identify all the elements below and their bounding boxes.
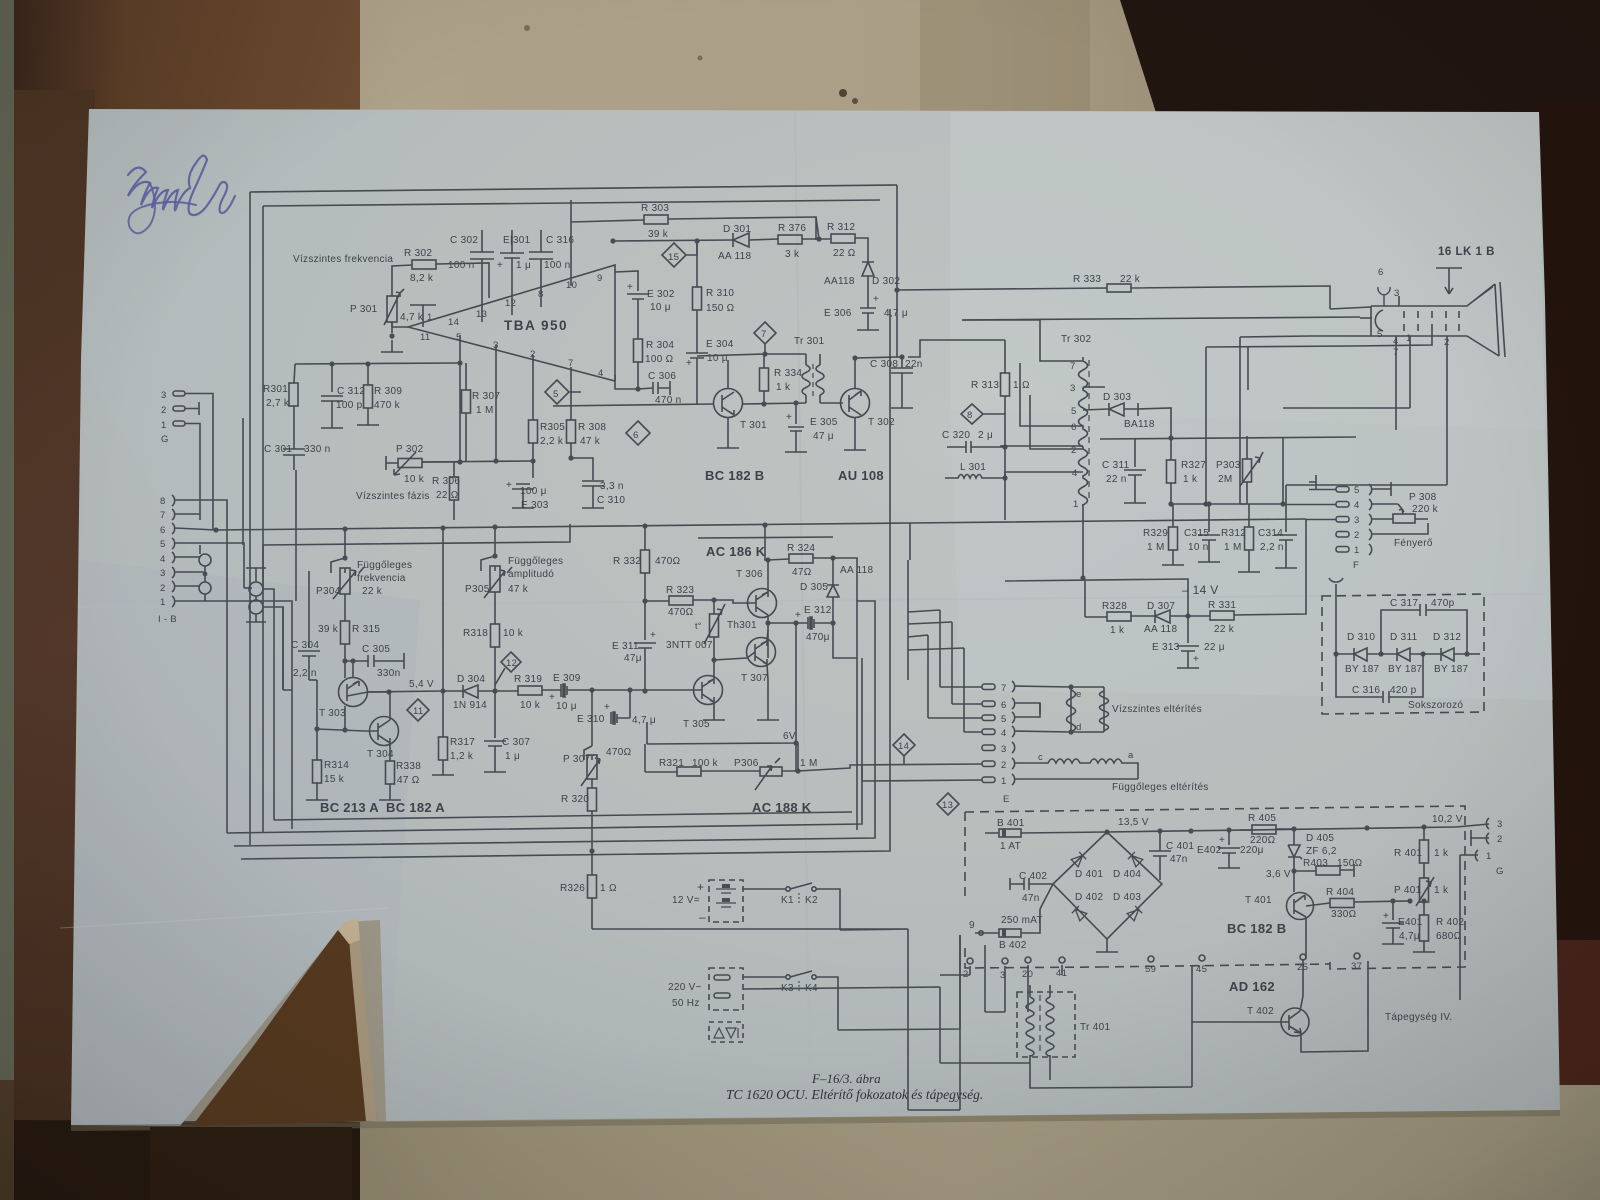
wire inner frame left <box>262 206 264 832</box>
capacitor E303 electrolytic 100u <box>512 461 534 508</box>
resistor R306 <box>450 462 459 520</box>
cathode arc <box>1375 310 1383 331</box>
resistor R328 <box>1085 612 1155 621</box>
wire vertical x897 down from 290 <box>897 290 902 357</box>
wire L301 node down <box>1004 447 1006 520</box>
label AC188K <box>752 800 812 815</box>
resistor R321 <box>645 767 760 776</box>
wire collector T303 to 5,4V row <box>352 661 354 678</box>
diamond node 6 <box>626 421 650 445</box>
capacitor E306 electrolytic <box>857 290 879 330</box>
transformer Tr301 <box>802 354 824 403</box>
node row y438 <box>1100 437 1356 439</box>
capacitor C304 <box>298 571 320 680</box>
potentiometer P401 <box>1416 877 1434 915</box>
resistor R307 <box>462 363 471 462</box>
carpet left green-gray stripe <box>0 0 14 1100</box>
resistor R401 <box>1420 827 1429 878</box>
pin 1 stub with T-top <box>410 305 436 327</box>
carpet left brown column <box>0 90 95 1200</box>
wire 13,5V rail <box>1107 827 1456 832</box>
label Függőleges eltérítés <box>1112 782 1209 793</box>
capacitor E309 electrolytic <box>558 684 592 697</box>
resistor R315 <box>341 618 350 661</box>
wire R323/T306 base link <box>714 600 747 603</box>
wire pin12 to E301 <box>511 302 513 315</box>
jack circles mid <box>246 568 266 622</box>
fuse B401 <box>985 829 1107 837</box>
wire R334 bottom to T301 row <box>742 403 806 404</box>
inductor vertical deflection coils <box>1043 759 1138 779</box>
rectifier bridge D401-D404 <box>1053 832 1162 939</box>
resistor R312b <box>1238 504 1260 572</box>
wire R333 line <box>897 288 1107 290</box>
capacitor E311 electrolytic <box>634 601 656 691</box>
wire 12V loop down <box>592 920 908 1110</box>
transistor T306 <box>747 577 777 658</box>
diamond node 11 <box>407 699 429 721</box>
transistor T301 <box>714 360 743 448</box>
capacitor C310 3,3n <box>571 458 604 508</box>
wire y692 row <box>368 691 463 692</box>
wire x833 d305 column down <box>833 585 857 830</box>
wire pin11 apex left <box>392 322 408 327</box>
transistor T305 <box>694 664 726 720</box>
transistor T402 <box>1270 959 1309 1036</box>
wire C306 to T301 base <box>553 404 714 406</box>
capacitor C301 <box>283 445 305 470</box>
resistor R338 <box>379 761 401 800</box>
wire inner frame top <box>263 200 880 206</box>
resistor R327 <box>1167 438 1176 504</box>
capacitor C311 <box>1124 438 1146 503</box>
capacitor E301 electrolytic <box>500 230 524 302</box>
label AC186K <box>706 544 766 559</box>
diode D312 <box>1423 648 1467 661</box>
capacitor E312 electrolytic 470u <box>796 617 833 629</box>
resistor R314 <box>306 760 328 800</box>
transformer Tr302 winding <box>1079 357 1090 505</box>
capacitor C305 <box>343 653 404 669</box>
resistor R404 <box>1330 899 1410 908</box>
capacitor C302 <box>470 230 494 310</box>
wire Tr302 pin7 left <box>962 320 1083 361</box>
wire bottom loops <box>592 929 1030 1063</box>
wire T306-T307 junction <box>765 620 770 625</box>
inductor L301 <box>945 475 1005 479</box>
node row y504 <box>1171 503 1247 505</box>
ground below bridge <box>1096 939 1118 952</box>
wire T307 emitter down to ground <box>757 680 779 720</box>
diode D302 <box>862 248 874 290</box>
wire mains to Tr401 <box>743 935 960 1063</box>
label Vízszintes fázis <box>356 491 430 502</box>
wire 10,2V right connector <box>1432 814 1463 825</box>
connector left lower pins 8-1 <box>172 495 292 833</box>
wire jack to bus <box>263 589 283 820</box>
diode D303 <box>1109 403 1138 416</box>
carpet top-right dark patch <box>1120 0 1600 125</box>
diode D304 <box>463 685 495 698</box>
diode D310 <box>1336 648 1381 661</box>
resistor R312 <box>819 234 868 248</box>
resistor R376 <box>778 235 819 244</box>
carpet right dark column <box>1530 100 1600 960</box>
resistor R405 <box>1240 825 1294 834</box>
wire x443 vertical <box>442 528 444 691</box>
fold creases <box>795 112 810 1113</box>
diamond node 5 <box>545 380 581 404</box>
diode D405 zener <box>1288 829 1302 871</box>
potentiometer P302 <box>386 452 460 475</box>
resistor R302 <box>392 260 489 298</box>
inductor horizontal deflection coils <box>1067 687 1109 732</box>
capacitor C314 <box>1275 485 1297 568</box>
wire diamond15 to D301 wire <box>696 241 698 255</box>
wire -14V rail <box>1005 579 1188 617</box>
terminals row <box>967 953 1360 964</box>
node F arc <box>1329 578 1343 596</box>
resistor R301 <box>289 364 298 445</box>
capacitor C320 <box>947 441 1005 453</box>
wire frame right drop <box>896 185 898 290</box>
wire outer frame top <box>250 185 897 192</box>
wire y462 to R306 <box>422 461 533 462</box>
node junction at 897,290 <box>894 287 899 292</box>
capacitor C307 <box>484 691 506 772</box>
wire rail to R313 top <box>908 340 1005 357</box>
CRT 16LK1B <box>1438 246 1495 258</box>
capacitor E313 electrolytic <box>1177 616 1199 668</box>
jack circles left <box>199 545 211 601</box>
resistor R326 <box>588 851 597 920</box>
diode D305 <box>827 558 839 623</box>
wire top rail y357 to Tr302 region <box>852 355 857 360</box>
label Függőleges frekvencia <box>357 560 412 584</box>
label Fényerő <box>1394 538 1433 549</box>
node wire y363 <box>295 363 460 364</box>
resistor R309 <box>357 364 379 425</box>
transistor T304 <box>364 692 399 761</box>
grid bars <box>1404 311 1459 331</box>
resistor R331 <box>1188 566 1306 620</box>
label Vízszintes frekvencia <box>293 254 393 265</box>
wire Th301 base row to T307 <box>714 658 747 660</box>
label AD162 <box>1229 979 1275 994</box>
resistor R317 <box>432 691 454 775</box>
potentiometer P308 <box>1393 504 1428 523</box>
wire long bottom lines <box>274 812 852 820</box>
wire Tr302 pin2 left <box>1030 395 1083 449</box>
resistor R333 <box>1107 284 1330 309</box>
neck outline <box>1371 284 1499 356</box>
paper shading overlays <box>81 109 420 640</box>
diamond node 15 <box>662 243 697 267</box>
transistor T401 <box>1287 871 1331 931</box>
wire outer frame left <box>249 192 251 845</box>
battery 12V dashed box <box>709 880 743 922</box>
torn corner: brown wedge over paper <box>192 921 377 1126</box>
potentiometer P306 <box>755 758 798 790</box>
wire node7 rail <box>697 354 806 356</box>
capacitor E401 electrolytic <box>1382 901 1404 944</box>
diode D311 <box>1381 648 1423 661</box>
carpet bottom-left dark under paper <box>14 1120 360 1200</box>
resistor R319 <box>495 686 558 695</box>
dashed box Sokszorozó <box>1322 594 1484 714</box>
wire multiplier entry <box>1335 596 1337 654</box>
capacitor E305 electrolytic <box>785 403 807 452</box>
potentiometer P301 <box>381 289 404 352</box>
wire D303 to C311 node <box>1138 408 1171 438</box>
wire y690 to T305 <box>592 689 694 691</box>
neck left closure <box>1370 306 1372 336</box>
resistor R323 <box>645 596 714 605</box>
capacitor C312 <box>321 364 343 428</box>
carpet top beige band <box>0 0 1600 125</box>
resistor R402 <box>1413 915 1435 952</box>
caption text <box>726 1071 983 1102</box>
wire pin3 down <box>495 345 497 461</box>
wire multiplier out right <box>1467 653 1480 655</box>
thermistor Th301 <box>704 604 725 664</box>
potentiometer P307 <box>581 718 600 788</box>
switch K3 K4 <box>743 971 838 1030</box>
wire Tr302 pin5 to D303 diode <box>1083 409 1109 410</box>
wire pin13 to C302 <box>481 310 483 322</box>
ground row under R329/C315/R312/C314 <box>1209 562 1286 572</box>
resistor R329 <box>1162 504 1184 565</box>
resistor R305 <box>529 355 538 461</box>
carpet beige shading + specks <box>920 0 1090 112</box>
signature blue pen <box>128 156 235 215</box>
paper sheet <box>71 109 1560 1126</box>
diode D307 <box>1155 610 1188 623</box>
carpet right maroon patch <box>1545 940 1600 1085</box>
capacitor C316 <box>529 230 553 295</box>
label BC213A BC182A <box>320 800 445 815</box>
diamond node 14 <box>893 734 915 765</box>
wire Tr302 pin4 left to L301 <box>1005 472 1083 478</box>
transistor T303 <box>339 661 390 707</box>
node junction D301 left <box>610 238 615 243</box>
diamond node 8 <box>961 404 1005 424</box>
capacitor C316b <box>1336 654 1423 703</box>
wire x910 drop <box>909 523 911 560</box>
fuse B402 250mAT <box>975 909 1040 937</box>
capacitor C306 <box>615 375 670 395</box>
diode D301 <box>613 233 778 247</box>
resistor R313 <box>1001 340 1010 447</box>
wire from frame to R303 <box>570 200 572 222</box>
capacitor C308 <box>891 357 913 408</box>
connector F block pins 5-1 <box>1283 475 1428 555</box>
resistor R308 <box>567 367 576 458</box>
transistor T302 <box>820 389 870 451</box>
wire bus verticals left <box>242 418 244 545</box>
connector left top pins 3,2,1,G <box>173 391 213 529</box>
wire Tr302 pin6 left <box>1000 363 1083 446</box>
wire F drop to multiplier <box>1305 519 1307 566</box>
capacitor E304 electrolytic <box>686 352 708 404</box>
op-amp U1 TBA950 triangle <box>408 265 615 381</box>
pin numbers TBA950 <box>420 273 604 379</box>
node junction at 819,239 <box>816 236 821 241</box>
anode T <box>1436 268 1462 294</box>
resistor R332 <box>641 526 650 601</box>
dashed box power supply <box>965 806 1465 969</box>
capacitor E402 electrolytic <box>1218 830 1240 868</box>
switch K1 K2 <box>743 883 840 930</box>
capacitor C401 <box>1149 831 1171 880</box>
wire Tr302 pin3 right to D303 <box>1083 386 1105 388</box>
resistor R318 <box>491 624 500 691</box>
wire pin8 to C316 <box>540 295 542 307</box>
capacitor C317 <box>1381 604 1467 654</box>
capacitor E302 electrolytic <box>615 271 649 339</box>
mains 220V dashed box <box>709 968 743 1010</box>
capacitor E310 electrolytic <box>592 690 630 724</box>
paper edge soft shadow bottom <box>71 1110 1560 1131</box>
resistor R304 <box>634 339 643 389</box>
wire node row to F pin4 <box>1240 503 1283 505</box>
wire feeds from left to connector <box>928 610 964 732</box>
diamond node 13 <box>937 793 959 815</box>
diamond node 12 <box>495 652 521 685</box>
wire pin10 up to frame <box>570 222 572 286</box>
wire 6V node <box>647 623 796 744</box>
wire AC186K box top <box>698 537 833 538</box>
wire base row y729 <box>317 729 364 731</box>
diamond node 7 <box>754 322 776 354</box>
capacitor C315 <box>1198 504 1220 562</box>
wire sub rail y543 <box>263 524 570 545</box>
wire T402 loop <box>1192 961 1368 1052</box>
transformer Tr401 <box>1017 985 1075 1068</box>
warning triangle symbol <box>709 1022 743 1042</box>
wire pin5 down <box>459 335 461 462</box>
wire T306 collector row <box>768 559 789 577</box>
resistor R403 <box>1294 864 1354 877</box>
resistor R303 <box>571 215 816 240</box>
wire column x1206 <box>1205 347 1207 504</box>
label Vízszintes eltérítés <box>1112 704 1202 715</box>
resistor R334 <box>760 354 769 404</box>
connector mid pins 7-1 <box>798 681 1138 785</box>
wire Tr302 pin1 down <box>1082 504 1084 578</box>
resistor R324 <box>789 554 833 563</box>
carpet top-left brown patch <box>0 0 360 125</box>
transistor T307 <box>747 630 776 680</box>
wire bundle from left to CRT <box>962 317 1360 347</box>
wire CRT pin feeds <box>1398 296 1400 306</box>
resistor R310 <box>693 241 702 352</box>
wire frame bottom closes <box>250 529 263 590</box>
label Tápegység IV <box>1385 1012 1452 1023</box>
wire long rail y528 <box>216 519 1306 530</box>
potentiometer P305 <box>481 527 512 624</box>
wire CRT drops <box>1283 331 1447 485</box>
potentiometer P303 <box>1240 436 1263 504</box>
capacitor C402 <box>1010 878 1053 890</box>
wire right columns down <box>1240 337 1248 504</box>
potentiometer P304 <box>331 529 364 618</box>
resistor R320 <box>588 788 597 851</box>
label Függőleges amplitudó <box>508 556 563 580</box>
wire T302 collector up <box>855 357 897 389</box>
